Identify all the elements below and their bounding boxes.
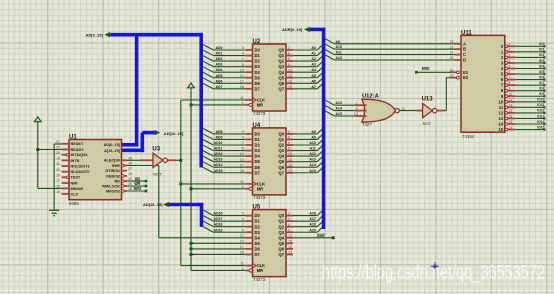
svg-text:CLK: CLK <box>257 98 265 103</box>
wire U13 output to U11 E2 <box>445 110 447 112</box>
svg-text:18: 18 <box>240 85 244 89</box>
wire U4 Q7 (A15) to address bus <box>293 172 317 174</box>
svg-text:U5: U5 <box>253 205 261 211</box>
svg-text:IO10: IO10 <box>537 98 545 102</box>
svg-text:IO3: IO3 <box>539 59 545 63</box>
U12:A input pin 13 <box>355 115 367 117</box>
svg-text:D3: D3 <box>255 148 261 153</box>
U1 pin INTA/QS1 (24) <box>62 154 67 156</box>
wire A11 to U11 <box>325 50 334 55</box>
svg-text:2: 2 <box>508 48 510 52</box>
svg-text:Q2: Q2 <box>279 59 285 64</box>
svg-text:Q3: Q3 <box>279 230 285 235</box>
U1 pin DEN/S2 (26) <box>121 175 124 178</box>
svg-text:18: 18 <box>450 68 454 72</box>
svg-text:ALE/QS0: ALE/QS0 <box>104 159 120 163</box>
svg-text:4: 4 <box>242 217 244 221</box>
wire U2 Q4 (A4) to address bus <box>293 71 317 73</box>
svg-text:D1: D1 <box>255 137 261 142</box>
wire AD3 to U2 D3 <box>203 61 213 67</box>
wire U11 output IO12 <box>516 112 545 114</box>
wire AD12 to U4 D4 <box>203 151 213 157</box>
svg-text:MR: MR <box>257 186 263 191</box>
wire AD9 to U4 D1 <box>203 134 213 140</box>
wire U2 Q5 (A5) to address bus <box>293 77 317 79</box>
wire U11 output IO4 <box>516 68 545 70</box>
svg-text:AD[0..15]: AD[0..15] <box>104 143 121 147</box>
U4 pin D3 (8) <box>245 150 252 152</box>
svg-text:INTR: INTR <box>71 159 80 163</box>
wire BHE from U1 to U5 D4 <box>127 165 159 167</box>
U2 pin D0 (3) <box>245 49 252 51</box>
svg-text:2: 2 <box>356 107 358 111</box>
bus AD[16..19] vertical to U5 <box>200 205 204 227</box>
svg-text:20: 20 <box>450 56 454 60</box>
svg-text:A7: A7 <box>311 85 316 89</box>
svg-text:https://blog.csdn.net/qq_36553: https://blog.csdn.net/qq_36553572 <box>322 263 545 284</box>
U11 enable pin E1 (18) <box>450 71 457 73</box>
U4 pin D6 (17) <box>245 166 252 168</box>
U2 pin D1 (4) <box>245 55 252 57</box>
svg-text:Q4: Q4 <box>279 70 285 75</box>
U11 output pin 0 (1) <box>505 45 508 48</box>
U1 pin HOLD/GT1 (31) <box>62 165 70 167</box>
svg-text:19: 19 <box>56 190 60 194</box>
svg-text:DEN/S2: DEN/S2 <box>106 174 120 178</box>
svg-text:Q2: Q2 <box>279 224 285 229</box>
U5 pin Q1 (5) <box>286 220 293 222</box>
wire U4 Q3 (A11) to address bus <box>293 150 317 152</box>
svg-text:D3: D3 <box>255 64 261 69</box>
wire VCC to READY and MN/MX <box>37 122 39 189</box>
svg-text:M/IO: M/IO <box>134 187 142 191</box>
svg-text:CLK: CLK <box>71 192 79 196</box>
svg-text:14: 14 <box>240 239 244 243</box>
svg-text:13: 13 <box>499 116 504 121</box>
gate U3 NOT <box>140 159 154 161</box>
U12:A input pin 2 <box>355 110 367 112</box>
svg-text:9: 9 <box>288 228 290 232</box>
svg-text:3: 3 <box>242 130 244 134</box>
wire U5 Q1 (A17) to address bus <box>293 220 317 222</box>
svg-text:14: 14 <box>240 74 244 78</box>
svg-text:NOT: NOT <box>423 121 432 126</box>
U1 pin MN/MX (33) <box>62 187 70 189</box>
svg-text:8: 8 <box>242 63 244 67</box>
wire U2 MR <box>191 104 245 106</box>
U11 output pin 2 (3) <box>505 56 508 59</box>
U1 pin BHE (34) <box>121 164 124 167</box>
svg-text:AD17: AD17 <box>214 217 223 221</box>
wire AD11 to U4 D3 <box>203 145 213 151</box>
U4 pin D7 (18) <box>245 172 252 174</box>
junction VCC-READY <box>36 148 39 151</box>
svg-text:A13: A13 <box>309 158 315 162</box>
svg-text:MR: MR <box>257 102 263 107</box>
svg-text:15: 15 <box>288 74 292 78</box>
wire U2 Q3 (A3) to address bus <box>293 66 317 68</box>
junction VCC2 / U5 D5 <box>190 242 193 245</box>
svg-text:14: 14 <box>508 109 512 113</box>
svg-text:D5: D5 <box>255 75 261 80</box>
U4 pin Q3 (9) <box>286 150 293 152</box>
wire U5 MR <box>191 269 245 271</box>
svg-text:IO1: IO1 <box>539 48 545 52</box>
node M/IO terminal square <box>415 71 418 74</box>
U5 pin D3 (8) <box>245 231 252 233</box>
U4 pin Q2 (6) <box>286 144 293 146</box>
svg-text:24: 24 <box>56 151 60 155</box>
svg-text:27: 27 <box>128 167 132 171</box>
svg-text:7: 7 <box>242 141 244 145</box>
svg-text:AD4: AD4 <box>215 68 222 72</box>
svg-text:16: 16 <box>288 245 292 249</box>
svg-text:BHE: BHE <box>317 234 325 238</box>
svg-text:IO2: IO2 <box>539 53 545 57</box>
power VCC arrow middle <box>188 83 195 88</box>
svg-text:22: 22 <box>56 146 60 150</box>
U4 CLK pin 11 <box>245 183 252 185</box>
svg-text:15: 15 <box>499 127 504 132</box>
bus stub U1 A[16..19] to AD[16..19] arrow <box>119 149 144 153</box>
svg-text:AD9: AD9 <box>215 135 222 139</box>
wire RESET to ground <box>54 143 61 145</box>
svg-text:12: 12 <box>288 152 292 156</box>
wire U11 output IO1 <box>516 51 545 53</box>
svg-text:11: 11 <box>240 180 244 184</box>
U11 output pin 7 (8) <box>505 84 508 87</box>
svg-text:NOT: NOT <box>153 171 162 176</box>
svg-text:22: 22 <box>450 45 454 49</box>
svg-text:1: 1 <box>242 101 244 105</box>
svg-text:U12:A: U12:A <box>362 93 380 99</box>
junction VCC2 / U5 D7 <box>190 253 193 256</box>
svg-text:Q5: Q5 <box>279 159 285 164</box>
U2 pin Q0 (2) <box>286 49 293 51</box>
svg-text:WR/LOCK: WR/LOCK <box>102 184 120 188</box>
U2 pin Q3 (9) <box>286 66 293 68</box>
svg-text:Q6: Q6 <box>279 81 285 86</box>
svg-text:9: 9 <box>288 63 290 67</box>
svg-text:18: 18 <box>240 251 244 255</box>
U2 MR pin 1 bubble <box>249 103 252 106</box>
svg-text:D1: D1 <box>255 219 261 224</box>
wire U11 output IO13 <box>516 117 545 119</box>
svg-text:74273: 74273 <box>253 277 266 282</box>
svg-text:D: D <box>463 58 466 63</box>
svg-text:A5: A5 <box>311 74 316 78</box>
wire ALE to U3 input <box>127 159 140 161</box>
U11 output pin 4 (5) <box>505 67 508 70</box>
svg-text:3: 3 <box>242 212 244 216</box>
IC U2 74273 body <box>253 44 287 111</box>
U1 pin WR/LOCK (29) <box>121 185 124 188</box>
svg-text:D7: D7 <box>255 86 261 91</box>
svg-text:A9: A9 <box>336 40 341 44</box>
wire AD6 to U2 D6 <box>203 78 213 84</box>
U1 pin TEST (23) <box>62 176 67 178</box>
svg-text:Q3: Q3 <box>279 148 285 153</box>
U11 enable pin E2 (19) <box>450 77 457 79</box>
svg-text:U11: U11 <box>461 30 472 36</box>
U5 MR pin 1 bubble <box>249 269 252 272</box>
U5 pin D5 (14) <box>245 242 252 244</box>
svg-text:D7: D7 <box>255 170 261 175</box>
wire U2 Q1 (A1) to address bus <box>293 55 317 57</box>
U2 pin D2 (7) <box>245 60 252 62</box>
svg-text:MN/MX: MN/MX <box>71 187 84 191</box>
wire U11 output IO2 <box>516 56 545 58</box>
svg-text:D4: D4 <box>255 154 261 159</box>
wire U2 Q0 (A0) to address bus <box>293 49 317 51</box>
svg-text:CLK: CLK <box>257 263 265 268</box>
svg-text:9: 9 <box>508 87 510 91</box>
wire WR terminal <box>127 185 146 187</box>
wire U2 CLK <box>181 99 246 101</box>
svg-text:A0: A0 <box>311 46 316 50</box>
svg-text:Q0: Q0 <box>279 131 285 136</box>
svg-text:D2: D2 <box>255 59 261 64</box>
U4 pin D5 (14) <box>245 161 252 163</box>
svg-text:18: 18 <box>240 169 244 173</box>
svg-text:AD8: AD8 <box>215 130 222 134</box>
svg-text:Q6: Q6 <box>279 246 285 251</box>
svg-text:10: 10 <box>499 99 504 104</box>
U1 pin DT/R/S1 (27) <box>122 170 128 172</box>
wire AD18 to U5 D2 <box>203 221 213 227</box>
svg-text:6: 6 <box>508 70 510 74</box>
svg-text:IO6: IO6 <box>539 75 545 79</box>
U4 pin Q5 (15) <box>286 161 293 163</box>
svg-text:AD0: AD0 <box>215 46 222 50</box>
wire U4 CLK <box>181 183 246 185</box>
svg-text:D0: D0 <box>255 131 261 136</box>
svg-text:M/IO/S2: M/IO/S2 <box>106 189 120 193</box>
U1 pin M/IO/S2 (28) <box>121 190 124 193</box>
svg-text:READY: READY <box>71 148 85 152</box>
svg-text:17: 17 <box>240 163 244 167</box>
wire AD5 to U2 D5 <box>203 72 213 78</box>
svg-text:D6: D6 <box>255 246 261 251</box>
svg-text:1: 1 <box>508 42 510 46</box>
svg-text:14: 14 <box>499 122 504 127</box>
svg-text:11: 11 <box>499 105 504 110</box>
U11 output pin 12 (14) <box>505 112 508 115</box>
svg-text:AD7: AD7 <box>215 85 222 89</box>
U5 pin D6 (17) <box>245 248 252 250</box>
svg-text:19: 19 <box>288 251 292 255</box>
origin marker crosshair <box>431 262 439 270</box>
U1 pin INTR (18) <box>62 159 70 161</box>
svg-text:AD14: AD14 <box>214 163 223 167</box>
svg-text:HOLD/GT1: HOLD/GT1 <box>71 165 90 169</box>
svg-text:23: 23 <box>56 173 60 177</box>
wire U11 output IO5 <box>516 73 545 75</box>
U11 output pin 3 (4) <box>505 62 508 65</box>
power VCC arrow left <box>35 117 42 122</box>
svg-text:A11: A11 <box>336 51 342 55</box>
svg-text:15: 15 <box>288 158 292 162</box>
svg-text:AD[16..19]: AD[16..19] <box>143 202 163 207</box>
U1 pin NMI (17) <box>62 182 70 184</box>
U5 pin D2 (7) <box>245 226 252 228</box>
U4 pin D0 (3) <box>245 133 252 135</box>
wire U11 output IO3 <box>516 62 545 64</box>
svg-text:12: 12 <box>401 107 405 111</box>
svg-text:2: 2 <box>288 46 290 50</box>
svg-text:A15: A15 <box>336 112 342 116</box>
svg-text:D0: D0 <box>255 48 261 53</box>
U1 pin CLK (19) <box>62 193 70 195</box>
bus ADR[0..19] horizontal top right <box>310 28 326 32</box>
bus arrow AD[16..19] lower <box>163 202 169 207</box>
svg-text:IO12: IO12 <box>537 109 545 113</box>
wire M/IO terminal (U1) <box>127 190 146 192</box>
svg-text:AD[16..19]: AD[16..19] <box>164 131 184 136</box>
svg-text:17: 17 <box>240 79 244 83</box>
wire U11 output IO0 <box>516 45 545 47</box>
wire U5 Q2 (A18) to address bus <box>293 226 317 228</box>
junction VCC2 / U2 MR <box>190 103 193 106</box>
U11 output pin 13 (15) <box>505 117 508 120</box>
svg-text:A14: A14 <box>309 163 315 167</box>
svg-text:U2: U2 <box>253 39 261 45</box>
wire U2 Q7 (A7) to address bus <box>293 88 317 90</box>
svg-text:Q1: Q1 <box>279 137 285 142</box>
svg-text:13: 13 <box>240 68 244 72</box>
svg-text:D1: D1 <box>255 53 261 58</box>
U11 output pin 5 (6) <box>505 73 508 76</box>
svg-text:15: 15 <box>508 114 512 118</box>
bus AD bus vertical at U2/U4 inputs <box>199 33 203 168</box>
U2 pin Q1 (5) <box>286 55 293 57</box>
junction VCC2 / U4 MR <box>190 187 193 190</box>
svg-text:1: 1 <box>242 267 244 271</box>
svg-text:A12: A12 <box>336 56 342 60</box>
bus ADR vertical address bus <box>322 29 326 229</box>
svg-text:RD: RD <box>115 180 121 184</box>
bus vertical to U1 AD[0..15] pin <box>135 33 139 145</box>
U5 pin Q6 (16) <box>286 248 293 250</box>
junction U3 output / CLK line <box>179 159 182 162</box>
svg-text:7: 7 <box>242 223 244 227</box>
wire U12 output to U13 input <box>399 110 417 112</box>
svg-text:A14: A14 <box>336 107 342 111</box>
U11 output pin 1 (2) <box>505 51 508 54</box>
svg-text:21: 21 <box>450 51 454 55</box>
svg-text:11: 11 <box>240 96 244 100</box>
wire U4 Q6 (A14) to address bus <box>293 166 317 168</box>
wire U2 Q6 (A6) to address bus <box>293 82 317 84</box>
wire A12 to U11 <box>325 55 334 60</box>
wire AD8 to U4 D0 <box>203 128 213 134</box>
U11 output pin 10 (11) <box>505 100 508 103</box>
wire U11 output IO9 <box>516 95 545 97</box>
wire U5 Q0 (A16) to address bus <box>293 215 317 217</box>
svg-text:13: 13 <box>508 103 512 107</box>
bus AD[16..19] horizontal lower <box>169 203 203 207</box>
U5 pin Q0 (2) <box>286 215 293 217</box>
U11 input pin B (22) <box>455 48 462 50</box>
svg-text:16: 16 <box>508 120 512 124</box>
U5 pin Q3 (9) <box>286 231 293 233</box>
svg-text:74154: 74154 <box>462 134 475 139</box>
U11 input pin A (23) <box>455 43 462 45</box>
svg-text:19: 19 <box>288 85 292 89</box>
svg-text:10: 10 <box>508 92 512 96</box>
U12:A input pin 1 <box>355 104 367 106</box>
svg-text:3: 3 <box>508 53 510 57</box>
svg-text:13: 13 <box>354 112 358 116</box>
svg-text:30: 30 <box>56 168 60 172</box>
wire CLK distribution vertical <box>180 100 182 266</box>
svg-text:AD[0..15]: AD[0..15] <box>85 32 103 37</box>
U2 CLK pin 11 <box>245 99 252 101</box>
wire AD4 to U2 D4 <box>203 67 213 73</box>
svg-text:16: 16 <box>288 163 292 167</box>
svg-text:A4: A4 <box>311 68 316 72</box>
svg-text:AD16: AD16 <box>214 212 223 216</box>
svg-text:AD2: AD2 <box>215 57 222 61</box>
U2 pin D4 (13) <box>245 71 252 73</box>
svg-text:3: 3 <box>242 46 244 50</box>
svg-text:6: 6 <box>288 223 290 227</box>
svg-text:2: 2 <box>288 130 290 134</box>
svg-text:IO9: IO9 <box>539 92 545 96</box>
U2 pin D7 (18) <box>245 88 252 90</box>
U2 pin D5 (14) <box>245 77 252 79</box>
U5 pin D7 (18) <box>245 253 252 255</box>
svg-text:12: 12 <box>499 110 504 115</box>
wire A10 to U11 <box>325 44 334 49</box>
wire U4 Q0 (A8) to address bus <box>293 133 317 135</box>
bus arrow AD[16..19] right-pointing <box>155 130 161 135</box>
svg-text:11: 11 <box>508 98 512 102</box>
U2 pin Q5 (15) <box>286 77 293 79</box>
svg-text:8: 8 <box>242 147 244 151</box>
wire AD0 to U2 D0 <box>203 45 213 51</box>
svg-text:5: 5 <box>288 52 290 56</box>
U5 pin Q5 (15) <box>286 242 293 244</box>
svg-text:12: 12 <box>288 234 292 238</box>
svg-text:TEST: TEST <box>71 176 81 180</box>
svg-text:U3: U3 <box>152 147 160 153</box>
svg-text:33: 33 <box>56 185 60 189</box>
wire AD1 to U2 D1 <box>203 50 213 56</box>
U5 pin Q4 (12) <box>286 237 293 239</box>
U2 pin D3 (8) <box>245 66 252 68</box>
svg-text:4: 4 <box>242 52 244 56</box>
wire U5 CLK <box>181 265 246 267</box>
wire U5 D6 tie high <box>191 248 245 250</box>
svg-text:23: 23 <box>450 40 454 44</box>
svg-text:A9: A9 <box>311 135 316 139</box>
wire RD terminal <box>127 180 146 182</box>
svg-text:6: 6 <box>288 141 290 145</box>
U2 pin D6 (17) <box>245 82 252 84</box>
svg-text:A: A <box>463 41 466 46</box>
svg-text:Q5: Q5 <box>279 75 285 80</box>
wire U11 output IO14 <box>516 123 545 125</box>
svg-text:4: 4 <box>242 136 244 140</box>
svg-text:15: 15 <box>288 239 292 243</box>
wire U11 output IO8 <box>516 90 545 92</box>
svg-text:RESET: RESET <box>71 142 84 146</box>
svg-text:Q7: Q7 <box>279 170 285 175</box>
svg-text:34: 34 <box>128 162 132 166</box>
bus arrow AD[0..15] <box>104 32 110 37</box>
svg-text:A16: A16 <box>309 212 315 216</box>
